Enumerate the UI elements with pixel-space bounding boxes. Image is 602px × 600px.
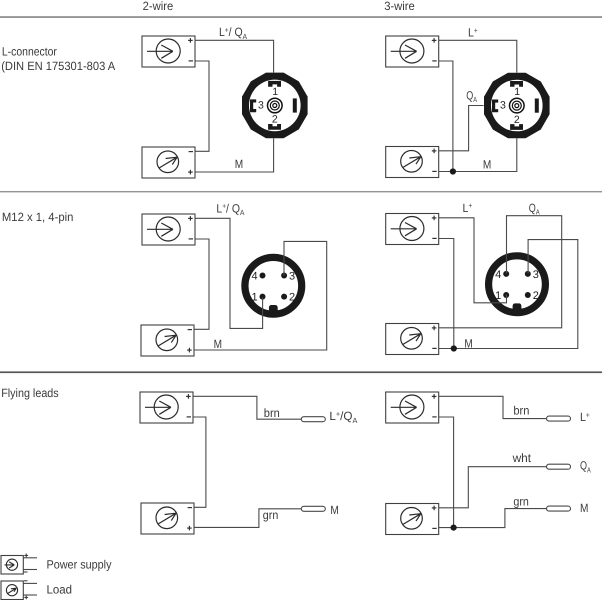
svg-text:M: M — [483, 158, 491, 172]
svg-text:grn: grn — [263, 508, 279, 522]
svg-text:M: M — [580, 501, 588, 515]
svg-text:Flying leads: Flying leads — [1, 386, 59, 400]
svg-text:3-wire: 3-wire — [384, 0, 415, 13]
svg-text:2-wire: 2-wire — [143, 0, 174, 13]
svg-text:Power supply: Power supply — [47, 557, 112, 571]
svg-text:M: M — [464, 336, 472, 350]
svg-text:M12 x 1, 4-pin: M12 x 1, 4-pin — [2, 210, 74, 224]
svg-text:brn: brn — [513, 404, 529, 418]
svg-text:M: M — [214, 337, 222, 351]
svg-text:L-connector: L-connector — [2, 44, 57, 58]
svg-text:grn: grn — [513, 495, 529, 509]
svg-text:M: M — [235, 157, 243, 171]
svg-text:(DIN EN 175301-803 A: (DIN EN 175301-803 A — [1, 59, 115, 73]
svg-text:Load: Load — [47, 583, 73, 597]
svg-text:M: M — [330, 503, 338, 517]
svg-text:brn: brn — [264, 406, 280, 420]
svg-text:wht: wht — [512, 451, 532, 465]
